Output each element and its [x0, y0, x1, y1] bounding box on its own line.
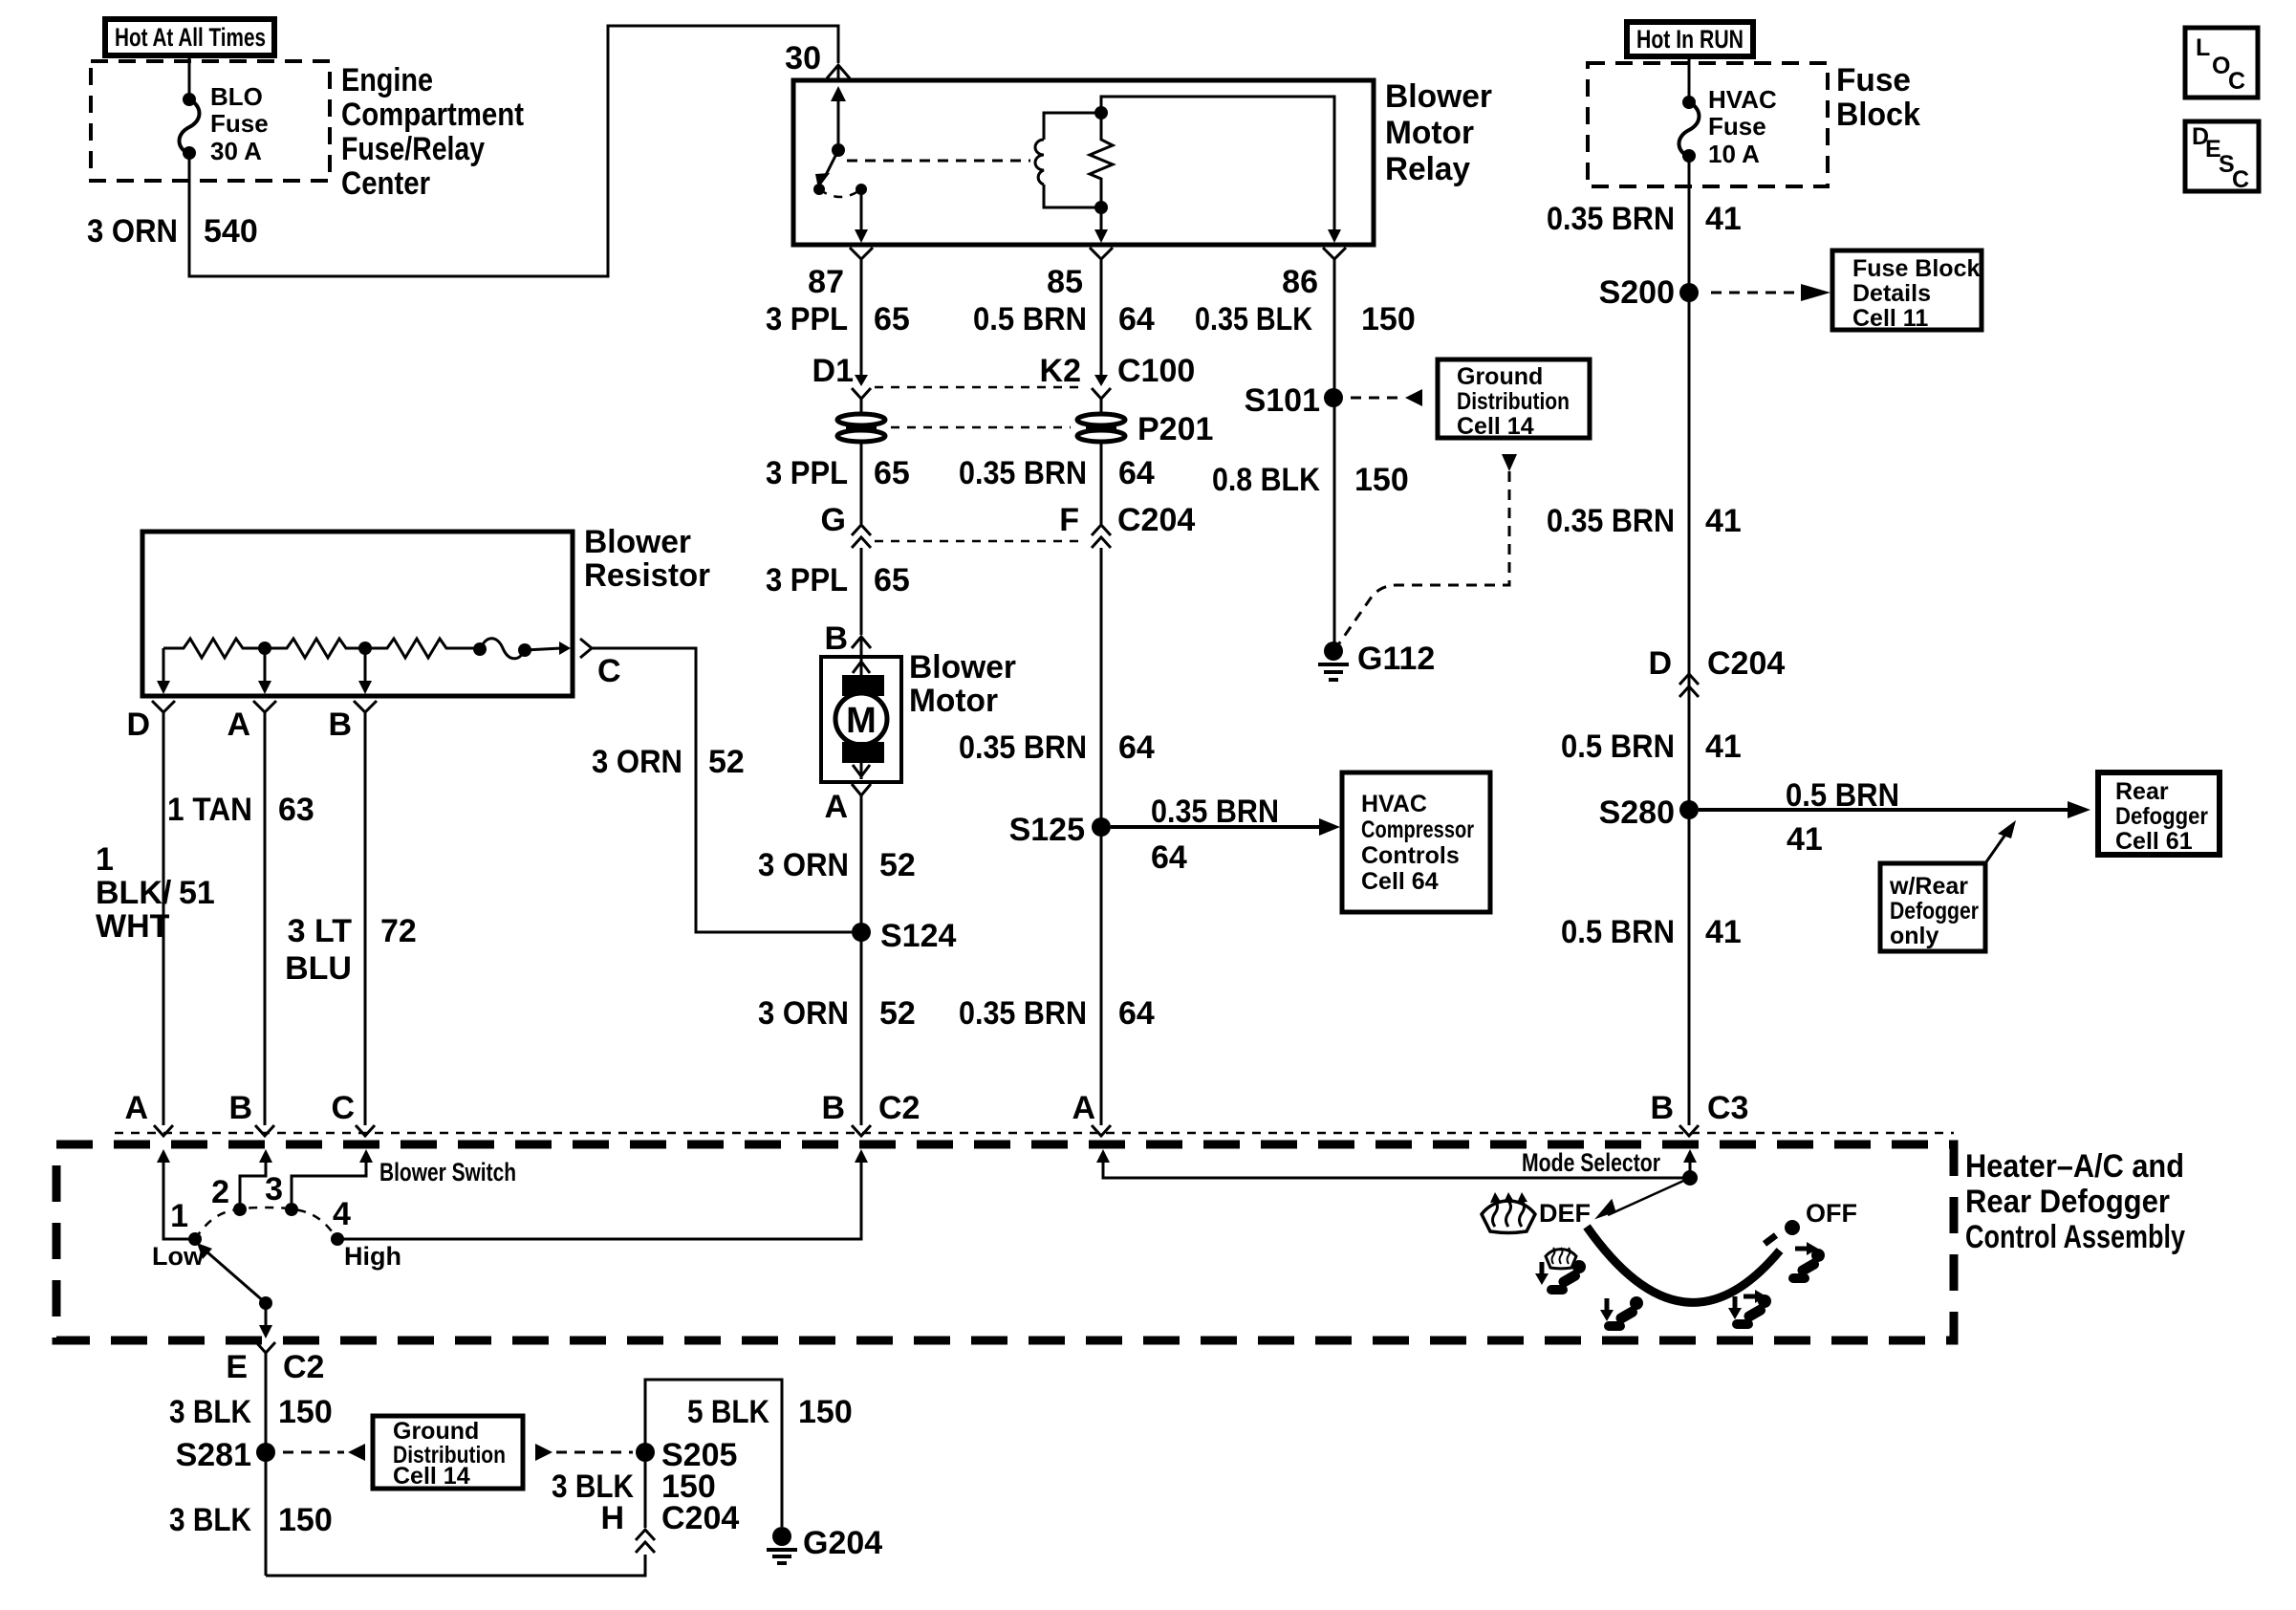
svg-text:S125: S125: [1009, 812, 1085, 848]
power tag Hot In RUN: [1627, 22, 1753, 56]
grommet P201 right: [891, 399, 1213, 447]
svg-text:0.35 BRN: 0.35 BRN: [1151, 794, 1279, 830]
svg-text:C204: C204: [1117, 502, 1195, 538]
svg-text:Motor: Motor: [1385, 115, 1474, 151]
svg-text:Blower Switch: Blower Switch: [379, 1158, 516, 1186]
svg-text:Blower: Blower: [584, 524, 691, 560]
label Engine Compartment Fuse/Relay Center: [341, 62, 524, 202]
wire 5 BLK 150 S205 to G204: [645, 1380, 853, 1527]
dashed link to S205: [535, 1444, 633, 1461]
svg-text:0.35 BRN: 0.35 BRN: [1547, 201, 1675, 237]
relay internal wire to pin 85: [1094, 207, 1108, 243]
svg-text:B: B: [1650, 1090, 1674, 1126]
svg-text:3 PPL: 3 PPL: [766, 455, 848, 491]
reference box Fuse Block Details Cell 11: [1832, 250, 1982, 332]
svg-text:30 A: 30 A: [210, 137, 262, 165]
splice S200: [1599, 274, 1830, 311]
connector C204 terminal F: [875, 502, 1195, 548]
relay internal wire to pin 86: [1101, 97, 1341, 243]
relay coil: [1035, 113, 1101, 207]
svg-text:BLU: BLU: [285, 950, 352, 987]
ground G204: [767, 1525, 882, 1563]
svg-text:3: 3: [265, 1171, 283, 1207]
svg-text:C: C: [2232, 166, 2249, 193]
svg-text:Heater–A/C and: Heater–A/C and: [1965, 1148, 2184, 1185]
wire S281 to H C204 bottom run: [169, 1502, 645, 1576]
resistor terminal A: [227, 701, 276, 743]
svg-text:C204: C204: [661, 1500, 739, 1536]
svg-text:K2: K2: [1040, 353, 1081, 389]
connector terminal B blower switch: [228, 1090, 274, 1136]
svg-text:Rear: Rear: [2115, 778, 2169, 805]
svg-text:63: 63: [278, 792, 314, 828]
mode selector wire: [1096, 1149, 1698, 1186]
svg-text:A: A: [227, 707, 250, 743]
pin 87 connector: [808, 248, 873, 300]
svg-text:Cell 11: Cell 11: [1852, 305, 1928, 332]
connector C100 terminal K2: [875, 353, 1195, 399]
switch feed arrow B: [240, 1149, 272, 1203]
svg-text:S124: S124: [880, 918, 956, 954]
wire 3 BLK 150 below S205: [552, 1452, 716, 1528]
switch feed arrow A: [157, 1149, 188, 1239]
svg-text:Cell 14: Cell 14: [393, 1463, 470, 1490]
svg-text:Compressor: Compressor: [1361, 816, 1474, 843]
label Blower Switch: [379, 1158, 516, 1186]
svg-text:C: C: [331, 1090, 355, 1126]
reference box HVAC Compressor Controls Cell 64: [1342, 772, 1490, 912]
wire 3 ORN 52 motor to S124: [758, 795, 916, 1125]
svg-text:w/Rear: w/Rear: [1889, 873, 1968, 900]
defrost icon DEF: [1482, 1192, 1591, 1232]
svg-text:3 ORN: 3 ORN: [758, 995, 849, 1032]
wire 3 ORN 52 below S124: [758, 995, 916, 1032]
heater A/C control assembly dashed box: [56, 1144, 1954, 1340]
wire 0.35 BRN 64 lower row: [959, 995, 1155, 1032]
svg-text:L: L: [2196, 34, 2210, 61]
svg-text:0.5 BRN: 0.5 BRN: [973, 301, 1087, 337]
wire 0.35 BRN 64 motor row: [959, 729, 1155, 766]
svg-text:G204: G204: [803, 1525, 882, 1561]
svg-text:D: D: [126, 707, 150, 743]
svg-text:C2: C2: [283, 1349, 324, 1385]
grommet P201 left: [837, 399, 885, 442]
connector terminal C blower switch: [331, 1090, 375, 1136]
svg-text:540: 540: [204, 213, 258, 250]
splice S280: [1599, 777, 2090, 858]
svg-text:3 PPL: 3 PPL: [766, 301, 848, 337]
svg-text:E: E: [226, 1349, 248, 1385]
svg-text:0.5 BRN: 0.5 BRN: [1786, 777, 1899, 814]
motor terminal B: [824, 620, 871, 657]
svg-text:Cell 14: Cell 14: [1457, 413, 1534, 440]
switch contact arc: [195, 1207, 337, 1239]
desc box: [2185, 121, 2259, 193]
svg-text:OFF: OFF: [1806, 1199, 1857, 1228]
svg-text:HVAC: HVAC: [1361, 791, 1427, 817]
resistor terminal D: [126, 701, 175, 743]
svg-text:41: 41: [1705, 914, 1742, 950]
note box w/Rear Defogger only: [1880, 820, 2016, 951]
svg-text:S101: S101: [1245, 382, 1320, 419]
wire high to B C2: [337, 1149, 868, 1239]
ground G112: [1318, 641, 1435, 680]
svg-text:10 A: 10 A: [1708, 140, 1760, 168]
svg-text:Blower: Blower: [1385, 78, 1492, 115]
svg-text:D1: D1: [812, 353, 854, 389]
wire 1 BLK/WHT 51: [96, 724, 215, 1125]
svg-text:150: 150: [1361, 301, 1416, 337]
connector C204 terminal D: [1648, 645, 1785, 697]
svg-text:64: 64: [1118, 455, 1155, 491]
switch contact 3: [265, 1171, 298, 1216]
svg-text:A: A: [824, 789, 848, 825]
svg-text:Mode Selector: Mode Selector: [1522, 1148, 1660, 1177]
svg-text:Control Assembly: Control Assembly: [1965, 1219, 2185, 1255]
connector C2 terminal E: [226, 1342, 324, 1385]
svg-text:HVAC: HVAC: [1708, 85, 1777, 114]
svg-text:0.35 BLK: 0.35 BLK: [1195, 301, 1312, 337]
wire 0.35 BLK 150 pin86: [1195, 268, 1416, 389]
svg-text:Fuse/Relay: Fuse/Relay: [341, 131, 485, 167]
svg-text:0.5 BRN: 0.5 BRN: [1561, 914, 1675, 950]
switch feed arrow C: [292, 1149, 373, 1203]
svg-text:Hot In RUN: Hot In RUN: [1636, 25, 1744, 54]
connector caret at relay pin 30: [827, 65, 850, 80]
svg-text:41: 41: [1705, 201, 1742, 237]
svg-text:0.35 BRN: 0.35 BRN: [959, 729, 1087, 766]
svg-text:3 ORN: 3 ORN: [87, 213, 178, 250]
blower motor: [821, 657, 901, 782]
svg-text:BLO: BLO: [210, 82, 263, 111]
reference box Rear Defogger Cell 61: [2098, 772, 2220, 855]
wire 3 PPL 65 pin87: [766, 268, 910, 377]
svg-text:Blower: Blower: [909, 649, 1016, 685]
svg-text:C: C: [2228, 68, 2245, 95]
connector B C3: [1650, 1090, 1748, 1136]
svg-text:0.35 BRN: 0.35 BRN: [1547, 503, 1675, 539]
svg-text:64: 64: [1118, 729, 1155, 766]
svg-text:Defogger: Defogger: [1890, 898, 1979, 925]
svg-text:Ground: Ground: [393, 1418, 479, 1445]
svg-text:3 BLK: 3 BLK: [169, 1394, 251, 1430]
svg-text:B: B: [824, 620, 848, 657]
svg-text:150: 150: [798, 1394, 853, 1430]
connector B C2: [821, 1090, 920, 1136]
svg-text:1: 1: [170, 1198, 188, 1234]
svg-text:1 TAN: 1 TAN: [167, 792, 252, 828]
svg-text:Distribution: Distribution: [1457, 388, 1570, 415]
svg-text:B: B: [228, 1090, 252, 1126]
svg-text:2: 2: [211, 1174, 229, 1210]
switch wiper: [197, 1243, 272, 1338]
resistor terminal C: [580, 639, 621, 689]
svg-text:DEF: DEF: [1539, 1199, 1591, 1228]
connector C204 terminal H: [600, 1500, 739, 1553]
svg-text:Controls: Controls: [1361, 842, 1460, 869]
svg-text:0.5 BRN: 0.5 BRN: [1561, 729, 1675, 765]
svg-text:WHT: WHT: [96, 908, 170, 945]
node 30 label: [785, 40, 821, 76]
relay resistor: [1090, 106, 1113, 214]
svg-text:52: 52: [708, 744, 745, 780]
svg-text:C2: C2: [878, 1090, 920, 1126]
svg-text:D: D: [1648, 645, 1672, 682]
svg-text:3 LT: 3 LT: [288, 913, 353, 949]
resistor terminal B: [328, 701, 377, 743]
svg-text:S281: S281: [176, 1437, 251, 1473]
svg-text:52: 52: [879, 995, 916, 1032]
svg-text:87: 87: [808, 264, 844, 300]
svg-text:86: 86: [1282, 264, 1318, 300]
wire 0.5 BRN 41 below S280: [1561, 914, 1742, 950]
svg-text:M: M: [846, 701, 877, 741]
svg-text:72: 72: [380, 913, 417, 949]
svg-text:Fuse: Fuse: [210, 109, 269, 138]
svg-text:150: 150: [278, 1502, 333, 1538]
splice S125: [1009, 548, 1340, 1125]
svg-text:41: 41: [1705, 729, 1742, 765]
wire 0.35 BRN 41 mid: [1547, 503, 1742, 539]
relay control dashed link: [847, 160, 1030, 163]
dashed route box to G112: [1339, 454, 1517, 643]
svg-text:Rear Defogger: Rear Defogger: [1965, 1184, 2170, 1220]
svg-text:64: 64: [1118, 995, 1155, 1032]
splice S124: [852, 918, 956, 954]
wire 3 ORN 52 from resistor C: [592, 648, 852, 932]
svg-text:3 ORN: 3 ORN: [592, 744, 682, 780]
blower resistor box: [142, 532, 573, 696]
svg-text:B: B: [821, 1090, 845, 1126]
engine compartment fuse/relay center dashed box: [91, 61, 330, 181]
label Blower Resistor: [584, 524, 710, 594]
svg-text:150: 150: [278, 1394, 333, 1430]
svg-text:C100: C100: [1117, 353, 1195, 389]
blower motor relay box: [793, 80, 1374, 245]
connector terminal A blower switch: [124, 1090, 173, 1136]
svg-text:only: only: [1890, 923, 1939, 949]
motor terminal A: [824, 784, 871, 825]
svg-text:BLK/: BLK/: [96, 875, 172, 911]
svg-text:C3: C3: [1707, 1090, 1748, 1126]
svg-text:64: 64: [1151, 839, 1187, 876]
power tag Hot At All Times: [105, 19, 274, 55]
svg-text:S280: S280: [1599, 794, 1675, 831]
svg-text:52: 52: [879, 847, 916, 883]
wire 0.5 BRN 64 pin85: [973, 268, 1155, 377]
svg-text:41: 41: [1787, 821, 1823, 858]
svg-text:Ground: Ground: [1457, 363, 1543, 390]
label Fuse Block: [1836, 62, 1920, 133]
svg-text:A: A: [1072, 1090, 1095, 1126]
pin 86 connector: [1282, 248, 1346, 300]
svg-text:3 BLK: 3 BLK: [169, 1502, 251, 1538]
label Mode Selector: [1522, 1148, 1660, 1177]
splice S101: [1245, 382, 1422, 419]
svg-text:Center: Center: [341, 165, 430, 202]
mode selector arc: [1587, 1199, 1857, 1302]
relay switch arm pin 30: [813, 86, 868, 243]
fuse HVAC 10A: [1679, 56, 1777, 168]
svg-text:F: F: [1059, 502, 1079, 538]
wire 0.5 BRN 41 above S280: [1561, 729, 1742, 765]
wire 3 LT BLU 72: [285, 724, 417, 1125]
switch contact 4: [331, 1196, 401, 1271]
svg-text:5 BLK: 5 BLK: [687, 1394, 769, 1430]
svg-text:65: 65: [874, 562, 910, 598]
connector C204 terminal G: [821, 502, 871, 548]
svg-text:S200: S200: [1599, 274, 1675, 311]
svg-text:Resistor: Resistor: [584, 557, 710, 594]
switch contact 1: [152, 1198, 205, 1271]
label Blower Motor: [909, 649, 1016, 719]
svg-text:0.35 BRN: 0.35 BRN: [959, 995, 1087, 1032]
wire 0.35 BRN 64 below P201: [959, 442, 1155, 524]
svg-text:1: 1: [96, 841, 114, 878]
wire 3 PPL 65 to blower motor: [766, 548, 910, 635]
wire 0.8 BLK 150: [1212, 398, 1409, 643]
wire fuse to relay pin 30: [189, 26, 838, 276]
mode icon bi-level: [1728, 1290, 1771, 1329]
svg-text:G112: G112: [1357, 641, 1435, 677]
label Heater-A/C and Rear Defogger Control Assembly: [1965, 1148, 2185, 1255]
loc box: [2185, 28, 2258, 98]
svg-text:Low: Low: [152, 1242, 205, 1271]
fuse BLO 30A: [180, 55, 269, 165]
svg-text:0.35 BRN: 0.35 BRN: [959, 455, 1087, 491]
connector A mode selector: [1072, 1090, 1111, 1136]
svg-text:65: 65: [874, 455, 910, 491]
svg-text:G: G: [821, 502, 846, 538]
reference box Ground Distribution Cell 14 lower: [373, 1416, 523, 1490]
svg-text:B: B: [328, 707, 352, 743]
svg-text:Relay: Relay: [1385, 151, 1470, 187]
svg-text:Block: Block: [1836, 97, 1920, 133]
svg-text:30: 30: [785, 40, 821, 76]
svg-text:A: A: [124, 1090, 148, 1126]
svg-text:Cell 64: Cell 64: [1361, 868, 1439, 895]
svg-text:Cell 61: Cell 61: [2115, 828, 2193, 855]
splice S205: [636, 1437, 737, 1473]
svg-text:0.8 BLK: 0.8 BLK: [1212, 462, 1320, 498]
wire 3 PPL 65 below P201: [766, 442, 910, 524]
resistor tap A: [258, 648, 271, 694]
svg-text:64: 64: [1118, 301, 1155, 337]
svg-text:Engine: Engine: [341, 62, 433, 98]
mode icon defrost-floor: [1535, 1248, 1586, 1295]
reference box Ground Distribution Cell 14: [1438, 359, 1590, 440]
resistor tap B: [358, 648, 372, 694]
label Blower Motor Relay: [1385, 78, 1492, 187]
svg-text:H: H: [600, 1500, 624, 1536]
svg-text:3 PPL: 3 PPL: [766, 562, 848, 598]
svg-text:Motor: Motor: [909, 683, 998, 719]
splice S281: [176, 1437, 365, 1473]
wire 0.35 BRN 41 below fuse: [1547, 156, 1742, 1125]
connector row thin dashed line: [115, 1132, 1954, 1135]
mode icon floor: [1600, 1296, 1643, 1331]
fuse block dashed box: [1588, 63, 1828, 186]
svg-text:Compartment: Compartment: [341, 97, 524, 133]
pin 85 connector: [1047, 248, 1113, 300]
svg-text:85: 85: [1047, 264, 1083, 300]
svg-text:C: C: [597, 653, 621, 689]
svg-text:4: 4: [333, 1196, 351, 1232]
svg-text:51: 51: [179, 875, 215, 911]
svg-text:High: High: [344, 1242, 401, 1271]
wire 3 BLK 150 E to S281: [169, 1353, 333, 1576]
svg-text:Fuse: Fuse: [1836, 62, 1911, 98]
wire 1 TAN 63: [167, 724, 314, 1125]
switch contact 2: [211, 1174, 247, 1216]
svg-text:65: 65: [874, 301, 910, 337]
mode icon vent: [1788, 1242, 1825, 1283]
svg-text:41: 41: [1705, 503, 1742, 539]
svg-text:Fuse: Fuse: [1708, 112, 1766, 141]
svg-text:C204: C204: [1707, 645, 1785, 682]
svg-text:3 ORN: 3 ORN: [758, 847, 849, 883]
svg-text:150: 150: [1354, 462, 1409, 498]
resistor network: [163, 639, 571, 659]
resistor tap D: [157, 648, 170, 694]
svg-text:P201: P201: [1137, 411, 1213, 447]
mode selector pointer: [1594, 1178, 1690, 1222]
wire label 3 ORN 540: [87, 213, 258, 250]
svg-text:Defogger: Defogger: [2115, 803, 2208, 830]
svg-text:Fuse Block: Fuse Block: [1852, 255, 1980, 282]
svg-text:Hot At All Times: Hot At All Times: [115, 23, 266, 52]
svg-text:Details: Details: [1852, 280, 1931, 307]
connector C100 terminal D1: [812, 353, 871, 399]
